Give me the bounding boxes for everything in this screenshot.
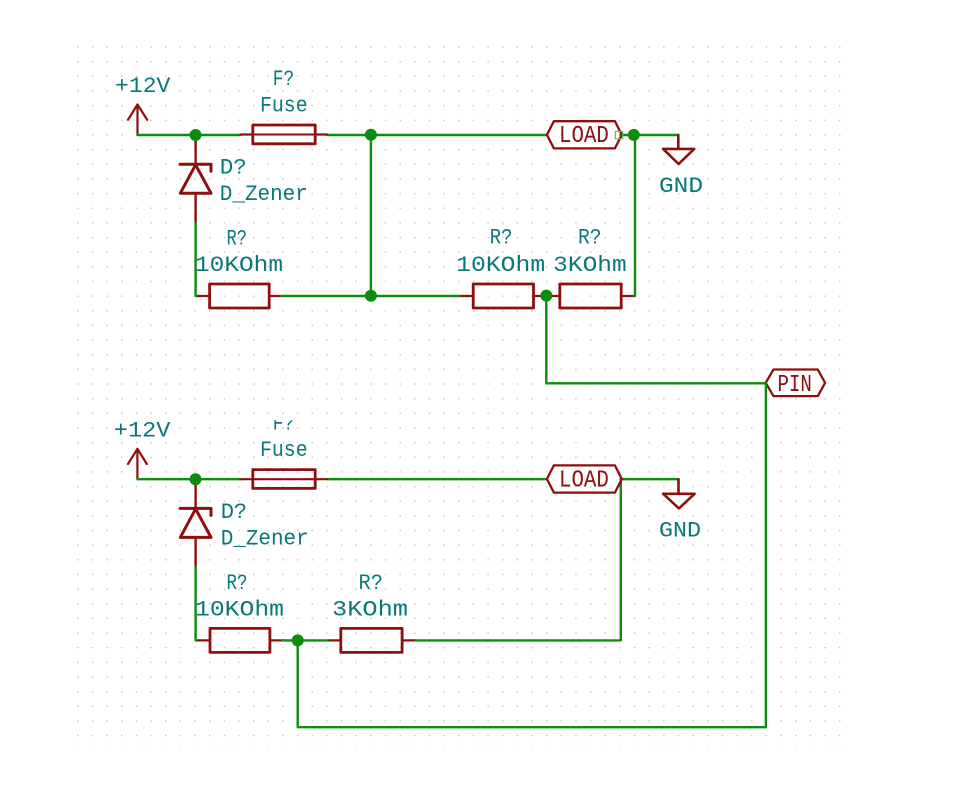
power symbol GND (top): [663, 135, 694, 164]
global label LOAD (top): [547, 121, 622, 150]
fuse F? (top): [241, 125, 328, 144]
zener diode D? (bottom): [180, 479, 211, 567]
junction E: [540, 290, 552, 302]
svg-text:D?: D?: [220, 155, 247, 181]
dangling marker square (top LOAD): [615, 131, 622, 138]
svg-text:+12V: +12V: [114, 417, 171, 443]
junction G: [292, 634, 304, 646]
svg-text:LOAD: LOAD: [559, 468, 609, 495]
svg-text:R?: R?: [578, 225, 602, 251]
svg-text:D?: D?: [221, 499, 248, 525]
svg-text:PIN: PIN: [778, 372, 812, 399]
wire diode leg down (top): [196, 223, 198, 296]
resistor R? 3KOhm (top right): [547, 284, 635, 308]
wire R1b to R2b (bottom): [282, 639, 330, 641]
svg-text:R?: R?: [490, 225, 513, 251]
wire bottom rail left: [137, 478, 240, 480]
resistor R? 10KOhm (top mid): [461, 284, 546, 308]
svg-text:10KOhm: 10KOhm: [195, 252, 283, 278]
svg-text:LOAD: LOAD: [559, 123, 609, 150]
power flag +12V (top): [128, 105, 147, 136]
wire vertical LOAD junction to R3 right: [633, 135, 636, 296]
svg-text:+12V: +12V: [115, 73, 171, 99]
wire top rail right (LOAD to GND): [621, 134, 679, 136]
svg-text:R?: R?: [359, 570, 384, 596]
label F? (bottom, clipped): [273, 410, 294, 436]
svg-text:10KOhm: 10KOhm: [195, 597, 284, 623]
svg-text:3KOhm: 3KOhm: [553, 252, 627, 278]
wire top rail left: [138, 134, 241, 136]
power flag +12V (bottom): [128, 449, 147, 479]
wire fuse to LOAD (bottom): [327, 478, 547, 480]
svg-text:R?: R?: [227, 570, 248, 596]
svg-text:10KOhm: 10KOhm: [456, 252, 545, 278]
zener diode D? (top): [180, 135, 211, 223]
resistor R? 3KOhm (bottom): [330, 628, 416, 652]
svg-text:Fuse: Fuse: [260, 437, 308, 463]
svg-text:F?: F?: [273, 66, 294, 92]
junction A: [190, 129, 202, 141]
junction D: [365, 290, 377, 302]
resistor R? 10KOhm (bottom): [198, 628, 285, 652]
junction F: [190, 473, 202, 485]
wire top rail mid: [327, 134, 547, 136]
global label PIN: [766, 370, 825, 400]
wire vertical junction B to D: [370, 135, 372, 296]
svg-text:GND: GND: [659, 517, 701, 543]
wire junction G down, across, up to PIN: [298, 383, 766, 727]
svg-text:R?: R?: [227, 226, 248, 252]
wire R2b right to LOAD-down vertical: [416, 479, 621, 640]
wire junction E down and to PIN: [546, 296, 765, 383]
junction B: [365, 129, 377, 141]
wire bottom rail left (top circuit): [282, 295, 462, 297]
svg-text:3KOhm: 3KOhm: [332, 597, 408, 623]
wire LOAD to GND (bottom): [621, 478, 679, 480]
resistor R? 10KOhm (top left): [198, 284, 282, 308]
global label LOAD (bottom): [547, 465, 622, 494]
power symbol GND (bottom): [663, 479, 694, 508]
svg-text:Fuse: Fuse: [260, 93, 308, 119]
svg-text:GND: GND: [659, 173, 703, 199]
svg-text:D_Zener: D_Zener: [221, 525, 309, 551]
junction C (at LOAD right): [628, 129, 640, 141]
fuse F? (bottom): [241, 470, 328, 489]
wire diode leg down (bottom): [196, 567, 198, 640]
svg-text:D_Zener: D_Zener: [220, 181, 308, 207]
